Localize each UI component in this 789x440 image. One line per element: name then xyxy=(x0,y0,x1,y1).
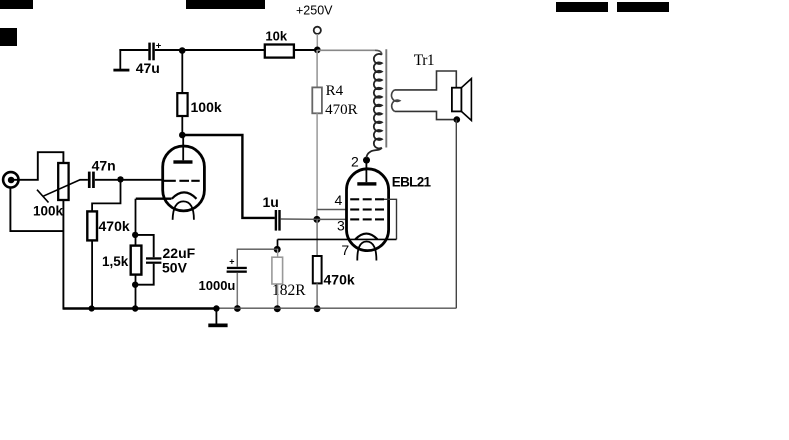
potentiometer 100k body xyxy=(58,163,68,200)
resistor 182R xyxy=(272,257,283,284)
wire R4 down to g2 xyxy=(316,113,318,209)
wire wiper to C 47n xyxy=(80,179,88,181)
resistor R4 xyxy=(312,87,322,113)
node top junction xyxy=(179,47,186,54)
wire node g1 down to 470k xyxy=(316,219,318,256)
wire grid node to triode xyxy=(121,179,163,181)
wire pin 2 into tube xyxy=(365,160,367,182)
wire 1000u to rail xyxy=(236,273,238,309)
transformer Tr1 primary coil xyxy=(374,54,382,148)
capacitor 1u xyxy=(275,210,281,231)
pentode grid dashes row 1 xyxy=(350,198,384,200)
svg-text:+: + xyxy=(229,257,234,267)
wire pot down to rail xyxy=(62,200,64,310)
triode cathode dome xyxy=(172,192,197,198)
wire node k to 182R xyxy=(277,249,279,258)
wire 470k left to rail xyxy=(91,240,93,308)
svg-text:100k: 100k xyxy=(191,99,222,115)
resistor 1,5k xyxy=(131,246,142,275)
speaker cone xyxy=(461,79,471,121)
node speaker return xyxy=(454,116,461,123)
artifact square left-edge xyxy=(0,28,17,46)
wire R 100k to node anode xyxy=(181,116,183,135)
triode anode plate xyxy=(173,160,192,163)
svg-text:3: 3 xyxy=(337,218,345,234)
wire jack down xyxy=(10,187,63,231)
pot wiper arrow xyxy=(37,180,80,203)
ground rail thin right xyxy=(218,307,456,309)
wire jack to pot top xyxy=(11,152,63,180)
svg-text:4: 4 xyxy=(335,192,343,208)
node triode anode xyxy=(179,132,186,139)
wire secondary bottom to speaker xyxy=(395,111,457,119)
wire node to R 100k xyxy=(181,51,183,94)
svg-text:R4: R4 xyxy=(326,83,344,99)
svg-text:2: 2 xyxy=(351,153,359,169)
node cathode k xyxy=(274,246,281,253)
wire node B+ to transformer xyxy=(317,49,375,51)
node grid xyxy=(117,176,123,182)
wire 47n to grid node xyxy=(95,179,121,181)
terminal +250V xyxy=(314,27,321,34)
pentode cathode dome xyxy=(355,234,377,240)
pentode grid dashes row 2 xyxy=(350,208,384,210)
wire anode into tube xyxy=(182,135,184,160)
svg-text:470k: 470k xyxy=(99,218,130,234)
svg-text:EBL21: EBL21 xyxy=(392,174,432,189)
ground rail thick left xyxy=(63,307,218,310)
node 470k rail xyxy=(89,305,95,311)
transformer Tr1 primary feed xyxy=(375,50,382,54)
svg-text:10k: 10k xyxy=(265,28,287,43)
svg-text:100k: 100k xyxy=(33,204,64,219)
svg-text:470k: 470k xyxy=(324,271,355,287)
wire secondary top to speaker xyxy=(395,71,457,90)
node ground symbol xyxy=(213,305,219,311)
triode grid dashes xyxy=(164,180,200,182)
wire node g1 to tube pin 3 xyxy=(317,218,347,220)
capacitor 47n xyxy=(88,172,95,188)
transformer core xyxy=(385,49,387,147)
pentode anode plate xyxy=(357,182,376,185)
wire 1u to node g1 xyxy=(281,218,317,220)
wire 22uF bottom xyxy=(138,264,154,285)
wire node k to 1000u xyxy=(237,249,277,267)
capacitor 22uF xyxy=(146,257,161,264)
capacitor 47u xyxy=(148,41,162,61)
artifact bar top-right-2 xyxy=(617,2,669,12)
node 1,5k rail xyxy=(132,305,138,311)
wire 470k to ground rail xyxy=(316,283,318,309)
triode V1 envelope xyxy=(163,146,205,211)
node 182R rail xyxy=(274,305,281,312)
wire node to rail xyxy=(135,285,137,309)
wire triode cathode lead xyxy=(136,197,172,199)
triode heater xyxy=(173,201,194,219)
svg-text:+250V: +250V xyxy=(296,4,333,18)
wire node B+ down to R4 xyxy=(316,50,318,87)
pentode heater xyxy=(357,242,376,261)
resistor 470k right xyxy=(313,256,322,283)
wire speaker return down xyxy=(455,120,457,309)
wire pin 7 cathode xyxy=(278,238,397,240)
pentode grid dashes row 3 xyxy=(350,218,384,220)
artifact bar top-center xyxy=(186,0,265,9)
svg-text:7: 7 xyxy=(341,242,349,258)
wire down to node k xyxy=(277,239,279,248)
wire C1 to R 10k xyxy=(155,49,265,51)
speaker voice coil xyxy=(452,88,462,112)
wire cathode down xyxy=(135,199,137,235)
wire g2 pin 4 xyxy=(317,209,346,211)
svg-text:50V: 50V xyxy=(162,259,188,275)
node g1 xyxy=(313,216,320,223)
node 470k ground xyxy=(314,305,321,312)
pentode EBL21 envelope xyxy=(347,169,389,251)
wire ground to C1 xyxy=(119,49,148,51)
svg-text:47u: 47u xyxy=(136,60,160,76)
artifact bar top-left xyxy=(0,0,33,9)
wire terminal to node xyxy=(316,34,318,48)
capacitor 1000u xyxy=(227,257,247,273)
node pin 2 xyxy=(363,157,370,164)
ground symbol xyxy=(208,309,227,328)
transformer secondary coil xyxy=(391,90,399,112)
node cathode / 1,5k xyxy=(132,232,138,238)
beam plate connection box xyxy=(384,199,397,239)
ground top-left xyxy=(113,49,129,72)
input jack xyxy=(3,172,18,187)
wire triode anode to C 1u (thick) xyxy=(182,135,274,218)
wire to C 22uF top xyxy=(135,235,154,257)
wire grid node down to 470k left xyxy=(92,179,120,211)
node B+ xyxy=(314,47,321,54)
resistor 10k xyxy=(265,45,294,58)
svg-text:1,5k: 1,5k xyxy=(102,254,129,269)
resistor 100k top xyxy=(177,93,187,116)
wire 10k to node B+ xyxy=(294,49,317,51)
wire 1,5k to node xyxy=(135,275,137,285)
wire 182R to rail xyxy=(277,284,279,309)
node 1000u rail xyxy=(234,305,241,312)
wire node to 1,5k xyxy=(135,235,137,246)
resistor 470k left xyxy=(87,211,97,240)
svg-text:47n: 47n xyxy=(92,157,116,173)
svg-text:Tr1: Tr1 xyxy=(414,52,434,69)
svg-text:1u: 1u xyxy=(263,194,279,210)
svg-text:470R: 470R xyxy=(325,102,358,118)
wire to node g1 xyxy=(316,210,318,220)
node 1,5k bottom xyxy=(132,282,138,288)
svg-text:1000u: 1000u xyxy=(199,278,236,293)
artifact bar top-right-1 xyxy=(556,2,608,12)
transformer primary exit to pin 2 xyxy=(367,148,382,158)
